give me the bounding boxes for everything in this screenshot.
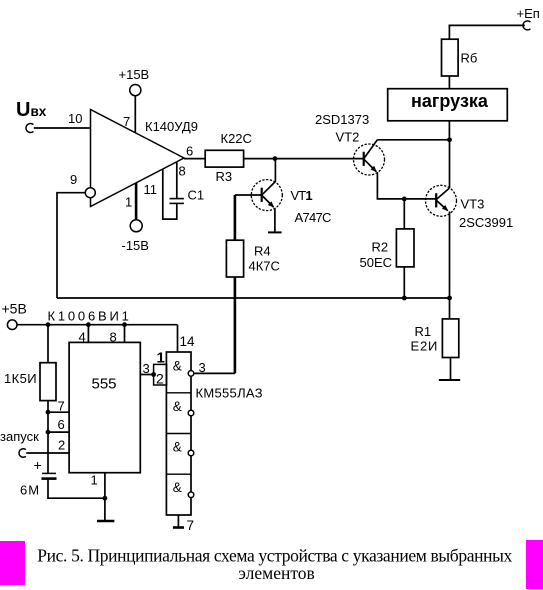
wire gate output pin 3 bbox=[194, 372, 235, 374]
wire pin 10 input bbox=[34, 127, 91, 129]
wire 1К5И down to cap bbox=[47, 401, 49, 473]
timer IC 555 box bbox=[69, 342, 140, 472]
wire pin 7 bbox=[134, 96, 136, 133]
node rail/1К5И bbox=[46, 322, 51, 327]
svg-text:1К5И: 1К5И bbox=[4, 371, 37, 386]
wire VT2 emitter to VT3 base bbox=[377, 172, 436, 199]
svg-text:+5В: +5В bbox=[2, 301, 27, 317]
right magenta block bbox=[526, 540, 543, 589]
resistor R4 bbox=[226, 240, 243, 277]
VT1 emitter common bar bbox=[268, 231, 282, 233]
op-amp U1 triangle bbox=[91, 110, 185, 207]
node pin 6 bbox=[46, 430, 51, 435]
wire pin 2 of 555 bbox=[26, 452, 69, 454]
svg-text:6: 6 bbox=[58, 417, 65, 432]
wire pin 1 thick bbox=[135, 183, 138, 220]
svg-text:1: 1 bbox=[125, 195, 132, 210]
resistor R3 bbox=[205, 150, 243, 167]
svg-text:R3: R3 bbox=[216, 169, 233, 184]
pin 8 wire bbox=[176, 162, 178, 199]
svg-text:К22С: К22С bbox=[221, 131, 252, 146]
wire pin 6 of 555 bbox=[48, 431, 69, 433]
terminal +5В bbox=[2, 301, 27, 330]
svg-text:+Еп: +Еп bbox=[517, 6, 540, 21]
wire pin 1 of 555 bbox=[104, 473, 106, 521]
gate IC КМ555ЛА3 box bbox=[166, 352, 191, 515]
wire R3 to VT2 base bbox=[244, 158, 364, 160]
wire R1 to ground bbox=[450, 358, 452, 380]
svg-text:8: 8 bbox=[179, 164, 186, 179]
svg-text:7: 7 bbox=[123, 114, 130, 129]
gate divider 2 bbox=[166, 433, 191, 435]
svg-text:9: 9 bbox=[70, 172, 77, 187]
gate input notch pins 1-2 bbox=[154, 364, 167, 385]
left magenta block bbox=[0, 541, 25, 585]
gate output bubble 4 bbox=[188, 492, 194, 498]
wire R4 to gate output thick bbox=[234, 277, 237, 373]
wire VT1 collector bbox=[274, 159, 276, 182]
wire pin 4 stub bbox=[87, 325, 89, 343]
svg-text:&: & bbox=[173, 440, 182, 455]
resistor R1 bbox=[442, 319, 458, 358]
transistor Q VT3 bbox=[426, 185, 457, 216]
node load/VT3 collector bbox=[447, 137, 452, 142]
svg-text:R1: R1 bbox=[415, 324, 432, 339]
node rail/pin4 bbox=[86, 322, 91, 327]
wire R6 to load bbox=[448, 76, 450, 89]
gate output bubble 3 bbox=[188, 450, 194, 456]
terminal -15V circle bbox=[130, 220, 142, 232]
svg-text:11: 11 bbox=[144, 182, 158, 197]
node pin1/cap bbox=[103, 496, 108, 501]
wire VT2 collector to load node bbox=[377, 139, 449, 141]
ground under gate bbox=[173, 526, 184, 529]
svg-text:+: + bbox=[34, 457, 42, 473]
wire +5V rail bbox=[17, 324, 178, 326]
wire pin 7 of 555 bbox=[48, 411, 69, 413]
svg-text:10: 10 bbox=[68, 111, 82, 126]
wire pin 9 to feedback bbox=[57, 193, 85, 298]
svg-text:VT1: VT1 bbox=[291, 188, 313, 203]
ground under R1 bbox=[439, 379, 460, 381]
wire node to R1 bbox=[449, 298, 451, 319]
terminal запуск bbox=[0, 429, 39, 457]
svg-text:&: & bbox=[173, 359, 182, 374]
wire rail to 1К5И bbox=[47, 325, 49, 363]
capacitor C1 bbox=[170, 199, 184, 204]
gate divider 1 bbox=[166, 392, 191, 394]
svg-text:Uвх: Uвх bbox=[16, 99, 47, 121]
svg-text:2SD1373: 2SD1373 bbox=[315, 112, 369, 127]
node pin 7 bbox=[46, 410, 51, 415]
wire VT1 base to R4 thick bbox=[234, 195, 237, 240]
wire VT1 emitter bbox=[274, 208, 276, 232]
svg-text:Е2И: Е2И bbox=[411, 339, 439, 354]
svg-text:R2: R2 bbox=[372, 240, 389, 255]
wire R2 to feedback bbox=[403, 267, 405, 298]
svg-text:1: 1 bbox=[91, 473, 98, 488]
svg-text:4К7С: 4К7С bbox=[249, 259, 280, 274]
node VT2 emitter / R2 bbox=[402, 197, 407, 202]
load box нагрузка bbox=[388, 89, 508, 121]
svg-text:С1: С1 bbox=[188, 188, 205, 203]
wire +Еп to R6 bbox=[449, 25, 524, 39]
transistor Q VT1 bbox=[251, 180, 282, 211]
gate output bubble 1 bbox=[188, 371, 194, 377]
svg-text:6М: 6М bbox=[20, 483, 40, 498]
wire feedback line bbox=[57, 297, 450, 299]
wire VT3 collector bbox=[449, 140, 451, 188]
gate output bubble 2 bbox=[188, 410, 194, 416]
node R1/feedback bbox=[447, 296, 452, 301]
pin 9 inverting input circle bbox=[85, 188, 95, 198]
svg-text:Rб: Rб bbox=[461, 51, 478, 66]
wire node to R2 bbox=[403, 199, 405, 229]
wire C1 to pin 11 bbox=[163, 169, 177, 219]
svg-text:3: 3 bbox=[143, 361, 150, 376]
terminal +Еп bbox=[517, 6, 540, 30]
resistor R6 bbox=[442, 39, 459, 76]
svg-text:14: 14 bbox=[180, 334, 196, 349]
svg-text:3: 3 bbox=[199, 360, 206, 375]
svg-text:А747С: А747С bbox=[295, 210, 332, 225]
svg-text:К140УД9: К140УД9 bbox=[145, 119, 198, 134]
svg-text:2SC3991: 2SC3991 bbox=[459, 215, 513, 230]
svg-text:+15В: +15В bbox=[119, 67, 150, 82]
input terminal Uвх bbox=[16, 99, 47, 132]
wire VT3 emitter bbox=[449, 212, 451, 299]
svg-text:6: 6 bbox=[186, 144, 193, 159]
svg-text:7: 7 bbox=[58, 399, 65, 414]
resistor 1К5И bbox=[40, 363, 56, 401]
svg-text:VT2: VT2 bbox=[336, 130, 360, 145]
wire pin 6 to R3 bbox=[184, 158, 205, 160]
node gate input bbox=[151, 372, 156, 377]
ground under 555 bbox=[97, 520, 114, 522]
wire cap to pin1 ground bbox=[48, 479, 105, 499]
svg-text:&: & bbox=[173, 399, 182, 414]
svg-text:8: 8 bbox=[110, 330, 117, 345]
svg-text:555: 555 bbox=[91, 376, 116, 393]
svg-text:запуск: запуск bbox=[0, 429, 39, 444]
resistor R2 bbox=[396, 229, 414, 267]
node rail/pin8 bbox=[122, 322, 127, 327]
terminal +15V circle bbox=[130, 85, 141, 96]
wire pin 8 stub bbox=[124, 325, 126, 343]
svg-text:&: & bbox=[173, 480, 182, 495]
capacitor 6М bbox=[42, 473, 57, 478]
svg-text:7: 7 bbox=[187, 518, 195, 533]
wire pin 14 bbox=[177, 325, 179, 352]
svg-text:1: 1 bbox=[157, 350, 165, 367]
gate divider 3 bbox=[166, 473, 191, 475]
svg-text:50ЕС: 50ЕС bbox=[360, 255, 393, 270]
svg-text:элементов: элементов bbox=[238, 563, 314, 583]
wire load to VT3 node bbox=[448, 121, 450, 140]
node junction R3/VT1 bbox=[273, 156, 278, 161]
svg-text:2: 2 bbox=[58, 438, 65, 453]
transistor Q VT2 bbox=[354, 140, 385, 175]
svg-text:4: 4 bbox=[79, 330, 86, 345]
wire pin 3 of 555 bbox=[140, 374, 153, 376]
svg-text:2: 2 bbox=[156, 371, 164, 387]
svg-text:нагрузка: нагрузка bbox=[411, 91, 489, 111]
svg-text:R4: R4 bbox=[254, 244, 271, 259]
wire gate pin 7 ground bbox=[177, 515, 179, 527]
svg-text:К1006ВИ1: К1006ВИ1 bbox=[48, 309, 132, 324]
svg-text:VT3: VT3 bbox=[461, 197, 485, 212]
wire VT1 base bbox=[235, 194, 262, 196]
svg-text:КМ555ЛАЗ: КМ555ЛАЗ bbox=[196, 386, 263, 401]
node R2/feedback bbox=[402, 296, 407, 301]
svg-text:-15В: -15В bbox=[122, 238, 149, 253]
